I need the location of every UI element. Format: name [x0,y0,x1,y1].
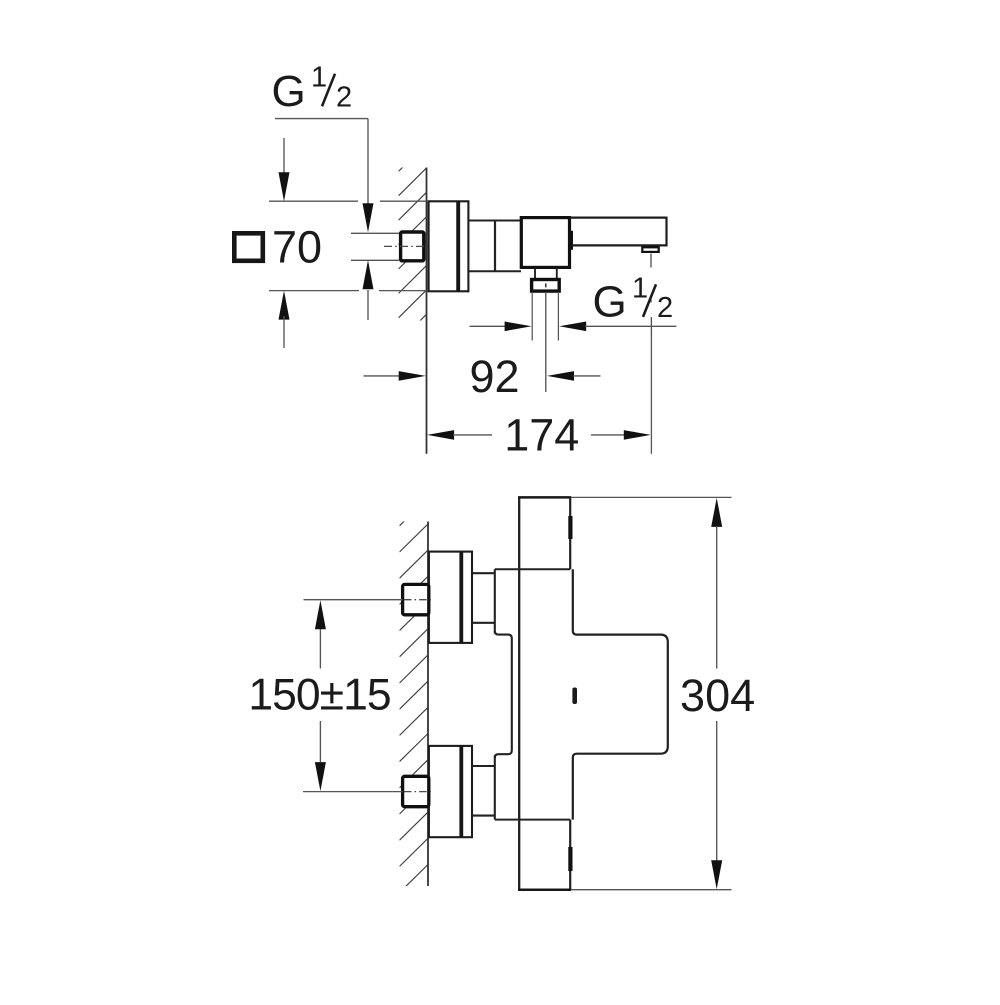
top wall nipple [403,584,431,614]
dim 92 [364,351,601,402]
recess between connectors [495,631,512,758]
wall (side view) [426,168,428,454]
faucet neck [468,221,521,272]
main body (side view) [521,218,569,268]
bottom connector [473,755,496,819]
detent mark [572,688,577,705]
top escutcheon (front view) [429,552,472,643]
dim 304 [571,497,755,889]
spout [570,217,668,247]
svg-text:304: 304 [680,670,755,721]
thermostat body outline [495,497,668,889]
svg-text:92: 92 [469,351,519,402]
label G 1/2 (wall connection) [272,62,353,116]
svg-text:174: 174 [504,410,579,461]
label G 1/2 (shower outlet) [593,272,674,326]
shower outlet neck [535,269,557,280]
svg-text:2: 2 [336,81,352,113]
dim 150±15 [248,600,402,792]
top connector [473,569,496,633]
leader line G1/2 [275,119,374,233]
aerator centerline [650,254,652,336]
grip tick top [568,516,572,539]
inlet fitting square (behind wall) [384,232,429,261]
body/spout joint [569,231,573,250]
outlet centerline [545,292,547,392]
bottom escutcheon (front view) [429,746,472,837]
svg-text:G: G [272,67,306,116]
grip tick bottom [568,847,572,871]
svg-text:2: 2 [657,292,673,324]
label square 70 [234,221,322,272]
svg-text:70: 70 [272,221,322,272]
dim 70 extension lines [269,201,427,290]
dim 70 arrows [279,138,290,348]
wall hatching (side view) [399,143,427,366]
dim G1/2 outlet arrows [470,322,677,332]
svg-text:G: G [593,277,627,326]
shower outlet nut [532,280,560,292]
bottom wall nipple [403,776,431,806]
dim 174 [427,335,651,461]
svg-text:1: 1 [311,62,327,94]
aerator outlet [642,247,658,252]
outlet extension lines [532,292,558,341]
escutcheon plate (side view) [429,201,469,291]
dim G1/2 nipple extension lines [351,233,399,320]
svg-text:150±15: 150±15 [248,671,390,720]
wall (front view) [427,522,429,887]
svg-text:1: 1 [632,272,648,304]
wall hatching (front view) [400,497,429,919]
